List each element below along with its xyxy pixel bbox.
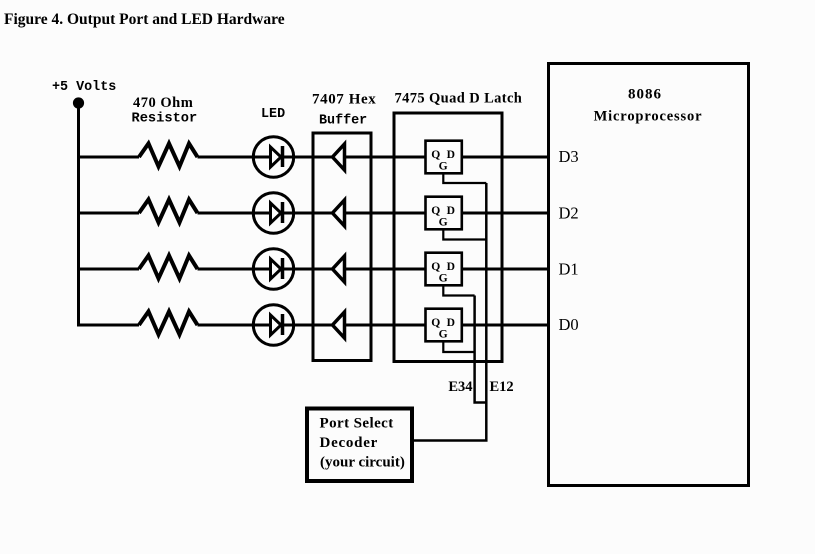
svg-text:Decoder: Decoder bbox=[320, 435, 379, 451]
wire row4 main segment bbox=[198, 324, 426, 327]
decoder Port Select box bbox=[307, 409, 412, 482]
svg-text:D2: D2 bbox=[559, 204, 579, 223]
latch U2A box bbox=[426, 141, 462, 174]
label 8086 bbox=[628, 87, 662, 103]
label E12 bbox=[490, 379, 514, 395]
label Microprocessor bbox=[594, 109, 703, 125]
svg-text:D: D bbox=[447, 316, 455, 329]
LED LED4 cathode bar bbox=[281, 314, 285, 335]
svg-text:G: G bbox=[439, 271, 448, 284]
LED LED2 diode triangle bbox=[271, 203, 282, 223]
wire row1 G enable jog bbox=[443, 173, 486, 183]
label LED bbox=[261, 107, 285, 122]
label E34 bbox=[448, 379, 472, 395]
node +5V junction dot bbox=[73, 97, 84, 108]
latch U2C box bbox=[426, 253, 462, 286]
wire row4 G enable jog bbox=[443, 341, 474, 352]
LED LED2 circle bbox=[253, 193, 293, 233]
label Buffer bbox=[319, 114, 367, 129]
pin D row4 bbox=[447, 316, 455, 329]
pin D row2 bbox=[447, 204, 455, 217]
svg-text:Port Select: Port Select bbox=[320, 416, 394, 432]
wire E12 net vertical to decoder bbox=[414, 183, 487, 441]
microprocessor 8086 box bbox=[549, 64, 749, 486]
svg-text:Figure 4. Output Port and LED: Figure 4. Output Port and LED Hardware bbox=[4, 11, 285, 28]
wire row4 right segment bbox=[462, 324, 549, 327]
wire row3 G enable jog bbox=[443, 285, 474, 295]
svg-text:Resistor: Resistor bbox=[132, 112, 198, 127]
wire row1 right segment bbox=[462, 156, 549, 159]
label Resistor bbox=[132, 112, 198, 127]
label D1 bbox=[559, 260, 579, 279]
svg-text:D3: D3 bbox=[559, 147, 579, 166]
LED LED3 diode triangle bbox=[271, 259, 282, 279]
svg-text:8086: 8086 bbox=[628, 87, 662, 103]
latch U2D box bbox=[426, 309, 462, 342]
buffer U1C triangle bbox=[333, 256, 345, 282]
pin G row3 bbox=[439, 271, 448, 284]
latch U2B box bbox=[426, 197, 462, 230]
svg-text:E34: E34 bbox=[448, 379, 472, 395]
svg-text:G: G bbox=[439, 215, 448, 228]
svg-text:D: D bbox=[447, 260, 455, 273]
wire row3 main segment bbox=[198, 268, 426, 271]
buffer U1D triangle bbox=[333, 312, 345, 338]
pin Q row4 bbox=[431, 316, 440, 329]
svg-text:7475 Quad D Latch: 7475 Quad D Latch bbox=[395, 91, 523, 107]
svg-text:470 Ohm: 470 Ohm bbox=[133, 95, 193, 111]
label D2 bbox=[559, 204, 579, 223]
label Decoder bbox=[320, 435, 379, 451]
label 470 Ohm bbox=[133, 95, 193, 111]
svg-text:Buffer: Buffer bbox=[319, 114, 367, 129]
label D3 bbox=[559, 147, 579, 166]
latch U2 7475 box bbox=[394, 113, 502, 362]
svg-text:Microprocessor: Microprocessor bbox=[594, 109, 703, 125]
svg-text:D: D bbox=[447, 204, 455, 217]
svg-text:(your circuit): (your circuit) bbox=[320, 455, 405, 471]
resistor R4 470 Ohm bbox=[139, 312, 198, 335]
wire row3 right segment bbox=[462, 268, 549, 271]
svg-text:G: G bbox=[439, 327, 448, 340]
resistor R1 470 Ohm bbox=[139, 144, 198, 167]
wire row2 G enable jog bbox=[443, 229, 486, 239]
label 7407 Hex bbox=[312, 92, 376, 108]
LED LED1 diode triangle bbox=[271, 147, 282, 167]
LED LED4 circle bbox=[253, 305, 293, 345]
LED LED4 diode triangle bbox=[271, 315, 282, 335]
label +5 Volts bbox=[52, 80, 116, 95]
label (your circuit) bbox=[320, 455, 405, 471]
pin D row1 bbox=[447, 148, 455, 161]
svg-text:7407 Hex: 7407 Hex bbox=[312, 92, 376, 108]
pin G row2 bbox=[439, 215, 448, 228]
wire row1 left segment bbox=[77, 156, 139, 159]
wire row2 main segment bbox=[198, 212, 426, 215]
resistor R3 470 Ohm bbox=[139, 256, 198, 279]
label Port Select bbox=[320, 416, 394, 432]
LED LED3 circle bbox=[253, 249, 293, 289]
buffer U1B triangle bbox=[333, 200, 345, 226]
pin D row3 bbox=[447, 260, 455, 273]
pin Q row3 bbox=[431, 260, 440, 273]
pin G row4 bbox=[439, 327, 448, 340]
svg-text:G: G bbox=[439, 159, 448, 172]
wire E34 net vertical bbox=[475, 296, 487, 403]
svg-text:D: D bbox=[447, 148, 455, 161]
svg-text:D0: D0 bbox=[559, 315, 579, 334]
wire row4 left segment bbox=[77, 324, 139, 327]
wire row2 left segment bbox=[77, 212, 139, 215]
label D0 bbox=[559, 315, 579, 334]
resistor R2 470 Ohm bbox=[139, 200, 198, 223]
title: Figure 4. Output Port and LED Hardware bbox=[4, 11, 285, 28]
wire row1 main segment bbox=[198, 156, 426, 159]
wire row3 left segment bbox=[77, 268, 139, 271]
svg-text:D1: D1 bbox=[559, 260, 579, 279]
wire +5V vertical bus bbox=[77, 103, 80, 327]
wire row2 right segment bbox=[462, 212, 549, 215]
LED LED3 cathode bar bbox=[281, 258, 285, 279]
pin Q row2 bbox=[431, 204, 440, 217]
svg-text:E12: E12 bbox=[490, 379, 514, 395]
LED LED2 cathode bar bbox=[281, 202, 285, 223]
label 7475 Quad D Latch bbox=[395, 91, 523, 107]
LED LED1 cathode bar bbox=[281, 146, 285, 167]
buffer U1 7407 box bbox=[313, 133, 371, 361]
pin G row1 bbox=[439, 159, 448, 172]
buffer U1A triangle bbox=[333, 144, 345, 170]
svg-text:LED: LED bbox=[261, 107, 285, 122]
LED LED1 circle bbox=[253, 137, 293, 177]
svg-text:+5 Volts: +5 Volts bbox=[52, 80, 116, 95]
pin Q row1 bbox=[431, 148, 440, 161]
